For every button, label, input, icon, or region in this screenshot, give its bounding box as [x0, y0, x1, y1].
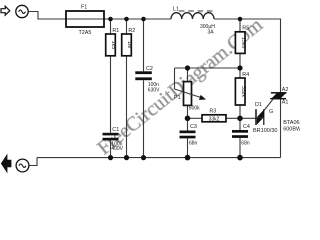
svg-text:3A: 3A: [208, 29, 215, 35]
svg-text:630V: 630V: [148, 88, 160, 94]
svg-text:BR100/30: BR100/30: [253, 128, 277, 134]
svg-text:F1: F1: [81, 4, 87, 10]
svg-text:P1: P1: [174, 95, 181, 101]
svg-text:C2: C2: [146, 66, 153, 72]
svg-text:R3: R3: [209, 109, 216, 115]
svg-text:D1: D1: [255, 102, 262, 108]
svg-text:15k0: 15k0: [240, 37, 246, 48]
svg-text:R4: R4: [242, 72, 249, 78]
svg-text:1k5: 1k5: [110, 41, 116, 49]
svg-text:400V: 400V: [111, 146, 123, 152]
svg-text:R2: R2: [128, 28, 135, 34]
svg-text:BTA06-: BTA06-: [283, 120, 300, 126]
svg-text:600BW: 600BW: [283, 126, 300, 132]
svg-text:1M: 1M: [126, 41, 132, 48]
svg-text:A2: A2: [282, 87, 289, 93]
svg-text:C1: C1: [112, 127, 119, 133]
svg-text:500k: 500k: [189, 105, 200, 111]
svg-text:L1: L1: [173, 7, 179, 13]
svg-text:332k: 332k: [240, 86, 246, 98]
svg-text:C4: C4: [243, 124, 250, 130]
svg-text:R5: R5: [242, 26, 249, 32]
svg-text:C3: C3: [190, 124, 197, 130]
svg-text:G: G: [269, 109, 273, 115]
svg-text:68n: 68n: [189, 141, 198, 147]
svg-text:68n: 68n: [241, 140, 250, 146]
svg-text:A1: A1: [282, 99, 289, 105]
svg-text:R1: R1: [112, 28, 119, 34]
svg-text:T2A5: T2A5: [79, 30, 92, 36]
svg-text:33k2: 33k2: [209, 116, 220, 122]
